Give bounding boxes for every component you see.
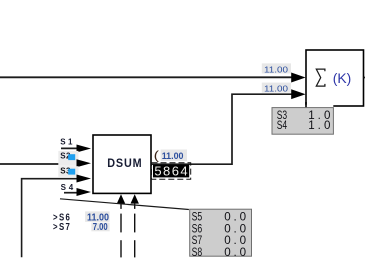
svg-text:(: ( (154, 149, 160, 163)
svg-text:11.00: 11.00 (264, 84, 288, 94)
svg-text:1.0: 1.0 (308, 119, 330, 132)
wire stub into DSUM input S4 (64, 192, 78, 194)
port label S3 with connection square (58, 166, 78, 177)
parameter box of U1 : S5..S8 values (190, 209, 252, 259)
value label 11.00 on net N1 (262, 63, 291, 74)
dashed wire into S7 (134, 204, 136, 209)
wire stub into DSUM input S1 (61, 147, 78, 149)
arrowhead into DSUM input S2 (77, 159, 92, 167)
white mask over U2 bottom edge behind its parameter box (270, 105, 334, 108)
parameter box of U2 : S3 S4 values (272, 108, 333, 135)
port label S2 with connection square (58, 151, 78, 166)
svg-text:(K): (K) (333, 70, 352, 86)
arrowhead into U2 input 2 (291, 89, 305, 99)
svg-text:0.0: 0.0 (224, 246, 246, 259)
svg-text:S4: S4 (277, 119, 288, 132)
display box D1 value 5864 (152, 163, 191, 179)
wire net N4 into DSUM input S3 (22, 179, 80, 258)
svg-text:7.00: 7.00 (93, 221, 108, 233)
port label >S6 with value (53, 211, 110, 223)
svg-text:11.00: 11.00 (264, 64, 288, 74)
output port tick of U2 (364, 77, 365, 79)
svg-text:S4: S4 (61, 183, 74, 192)
arrowhead into DSUM input S4 (77, 188, 92, 196)
leader line to parameter box of U1 (60, 199, 189, 210)
value label 11.00 on net N2 (262, 83, 291, 94)
up arrowhead into DSUM bottom input S6 (117, 194, 125, 203)
svg-text:S1: S1 (60, 138, 73, 147)
port label >S7 with value (53, 221, 110, 233)
arrowhead into U2 input 1 (291, 73, 305, 83)
wire net N1 into sigma input 1 (0, 76, 292, 78)
svg-text:DSUM: DSUM (107, 156, 142, 170)
block U1 DSUM (93, 135, 151, 193)
arrowhead into DSUM input S1 (77, 145, 92, 153)
svg-text:>S7: >S7 (53, 222, 71, 233)
svg-text:5864: 5864 (154, 164, 187, 179)
wire net N2 from DSUM output to sigma input 2 (151, 94, 291, 164)
op block U2 sigma (K) (306, 50, 364, 106)
svg-text:S8: S8 (192, 246, 203, 259)
svg-text:11.00: 11.00 (162, 151, 184, 161)
U2 left edge stub down to parameter box (305, 102, 307, 108)
arrowhead into DSUM input S3 (77, 175, 92, 183)
dashed wire into S6 (120, 204, 122, 209)
wire net N3 into DSUM input S2 (0, 163, 80, 165)
output value label 11.00 of U1 (161, 150, 187, 162)
up arrowhead into DSUM bottom input S7 (131, 194, 139, 203)
